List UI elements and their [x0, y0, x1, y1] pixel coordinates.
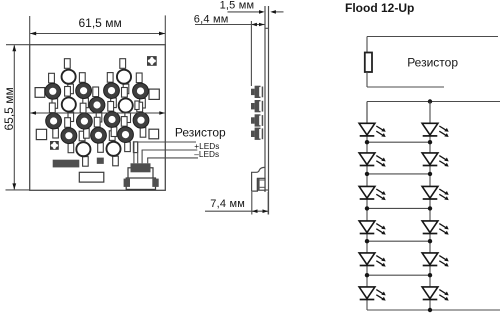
side view LED package 4 — [251, 128, 263, 140]
unpopulated LED position W5 — [76, 142, 90, 156]
LED D3 (schematic) — [359, 186, 386, 200]
LED D10 on PCB (dark ring) — [61, 128, 77, 144]
wire resistor bottom horizontal — [367, 86, 444, 88]
schematic title Flood 12-Up — [345, 1, 414, 15]
label +LEDs — [194, 141, 219, 151]
connector top block — [131, 163, 151, 172]
LED D1 on PCB (dark ring) — [45, 83, 61, 99]
LED D3 on PCB (dark ring) — [104, 83, 120, 99]
LED D5 (schematic) — [359, 253, 386, 267]
wire left LED string — [366, 102, 368, 311]
unpopulated LED position W1 — [62, 70, 76, 84]
junction node bus/right string — [428, 99, 432, 103]
dimension 6,4 мм — [194, 13, 265, 86]
label -LEDs — [194, 149, 219, 159]
resistor component on PCB — [53, 160, 80, 168]
LED D7 on PCB (dark ring) — [77, 113, 93, 129]
side view LED package 3 — [251, 114, 263, 126]
small dark component on PCB — [97, 158, 104, 164]
svg-text:Резистор: Резистор — [407, 55, 458, 69]
wire rung 1 between strings — [365, 140, 432, 144]
unpopulated LED position W3 — [62, 97, 76, 111]
svg-text:1,5 мм: 1,5 мм — [220, 0, 255, 12]
label Резистор (schematic) — [407, 55, 458, 69]
silkscreen outline rectangle — [79, 172, 104, 182]
side view board top edge — [265, 27, 269, 29]
LED D11 on PCB (dark ring) — [91, 127, 107, 143]
LED D7 (schematic) — [422, 123, 449, 137]
wire rung 5 between strings — [365, 273, 432, 277]
svg-text:Резистор: Резистор — [175, 126, 226, 140]
LED solder pads on PCB — [49, 59, 146, 167]
wire pin 3 vertical — [147, 158, 149, 163]
horizontal double arrow across PCB — [30, 111, 165, 115]
fiducial mark left — [50, 141, 59, 150]
wire pin 1a to resistor label — [133, 142, 135, 163]
svg-text:65,5 мм: 65,5 мм — [2, 87, 16, 130]
dimension 65,5 мм — [2, 45, 30, 190]
side view LED package 2 — [251, 100, 263, 112]
wire to +LEDs label — [142, 149, 198, 151]
svg-text:7,4 мм: 7,4 мм — [210, 198, 245, 210]
LED D12 (schematic) — [422, 287, 449, 301]
LED D9 (schematic) — [422, 186, 449, 200]
LED D5 on PCB (dark ring) — [89, 97, 105, 113]
connector side tab left — [124, 179, 130, 187]
wire left string drop — [366, 102, 368, 124]
LED D2 (schematic) — [359, 153, 386, 167]
LED D9 on PCB (dark ring) — [133, 112, 149, 128]
side view connector profile — [252, 167, 265, 191]
LED D4 on PCB (dark ring) — [133, 83, 149, 99]
wire to resistor label horizontal — [133, 141, 196, 143]
LED D8 on PCB (dark ring) — [104, 112, 120, 128]
connector side tab right — [152, 179, 158, 187]
LED D6 (schematic) — [359, 287, 386, 301]
wire rung 3 between strings — [365, 206, 432, 210]
side view board left edge — [264, 6, 266, 192]
wire bottom return bus — [367, 308, 500, 312]
svg-text:Flood 12-Up: Flood 12-Up — [345, 1, 414, 15]
wire right LED string — [429, 102, 431, 311]
svg-text:6,4 мм: 6,4 мм — [194, 13, 229, 25]
svg-text:61,5 мм: 61,5 мм — [79, 16, 122, 30]
label Резистор (PCB) — [175, 126, 226, 140]
side view board bottom edge — [265, 189, 269, 191]
dimension 7,4 мм — [205, 192, 268, 215]
dimension 1,5 мм — [220, 0, 284, 14]
LED D1 (schematic) — [359, 123, 386, 137]
wire anode bus — [367, 101, 500, 103]
fiducial mark top-right — [147, 56, 157, 66]
LED D4 (schematic) — [359, 221, 386, 235]
connector body outline — [128, 168, 153, 182]
unpopulated LED position W6 — [106, 142, 120, 156]
wire resistor bottom lead — [366, 72, 368, 87]
LED D2 on PCB (dark ring) — [76, 83, 92, 99]
wire to -LEDs label — [147, 157, 198, 159]
LED D11 (schematic) — [422, 253, 449, 267]
unpopulated LED position W2 — [117, 70, 131, 84]
wire top rail from resistor — [367, 36, 498, 38]
wire rung 4 between strings — [365, 239, 432, 243]
LED D6 on PCB (dark ring) — [46, 113, 62, 129]
LED D10 (schematic) — [422, 221, 449, 235]
edge pad squares — [35, 88, 159, 140]
svg-text:–LEDs: –LEDs — [194, 149, 219, 159]
dimension 61,5 мм — [30, 15, 166, 44]
wire pin 2 vertical — [141, 150, 143, 163]
side view LED package 1 — [251, 86, 263, 98]
LED D12 on PCB (dark ring) — [118, 127, 134, 143]
connector bottom shell — [126, 178, 155, 189]
side view board right edge — [268, 6, 270, 215]
wire rung 2 between strings — [365, 172, 432, 176]
wire pin 1b to resistor label — [137, 142, 139, 163]
unpopulated LED position W4 — [119, 98, 133, 112]
resistor R1 — [365, 53, 372, 73]
wire resistor top lead — [366, 37, 368, 53]
PCB board outline (top view) — [30, 45, 166, 191]
LED D8 (schematic) — [422, 153, 449, 167]
